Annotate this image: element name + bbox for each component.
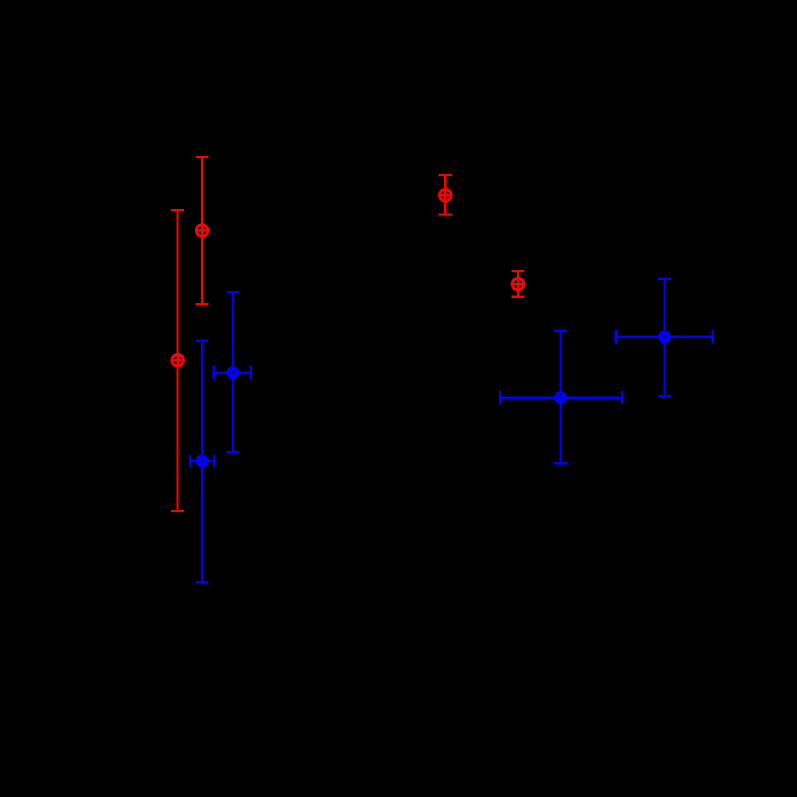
blue horizontal error bar 3 — [500, 391, 622, 404]
blue vertical error bar 1 — [226, 292, 239, 452]
red vertical error bar 3 — [439, 175, 452, 215]
blue horizontal error bar 2 — [190, 454, 214, 467]
blue horizontal error bar 1 — [214, 366, 251, 379]
blue data point 4 (thick ring marker with dark centre) — [661, 333, 669, 341]
red vertical error bar 2 — [171, 210, 184, 511]
red data point 3 (circle-plus marker) — [438, 188, 453, 203]
red data point 4 (circle-plus marker) — [511, 277, 526, 292]
blue data point 3 (thick ring marker with dark centre) — [557, 394, 565, 402]
blue horizontal error bar 4 — [616, 330, 713, 343]
red vertical error bar 4 — [511, 271, 524, 297]
blue vertical error bar 4 — [658, 279, 671, 396]
red vertical error bar 1 — [196, 157, 209, 304]
blue vertical error bar 3 — [554, 331, 567, 464]
blue data point 2 (thick ring marker with dark centre) — [198, 457, 206, 465]
red data point 2 (circle-plus marker) — [170, 353, 185, 368]
blue data point 1 (thick ring marker with dark centre) — [229, 369, 237, 377]
blue vertical error bar 2 — [195, 341, 208, 582]
red data point 1 (circle-plus marker) — [195, 223, 210, 238]
